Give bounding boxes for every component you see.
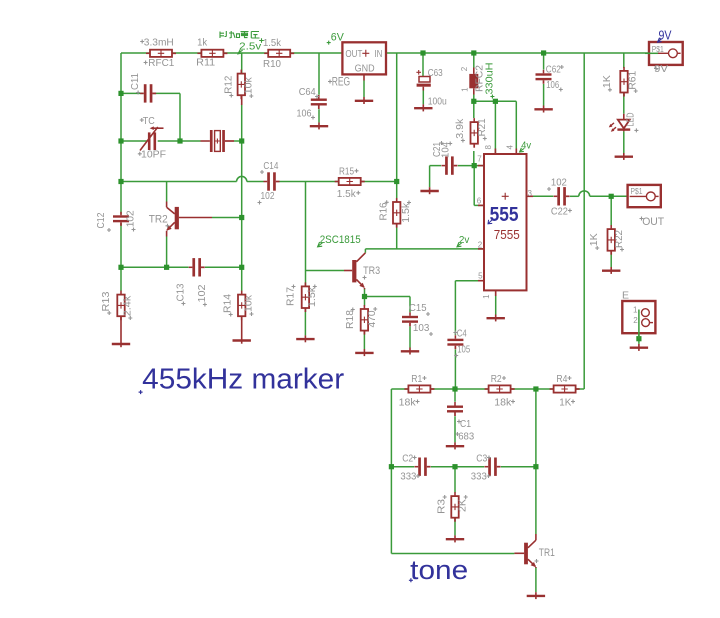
wire TR3 base bbox=[306, 270, 345, 272]
svg-text:102: 102 bbox=[125, 210, 137, 227]
capacitor C15 bbox=[402, 312, 418, 326]
green label annotation (kanji) bbox=[220, 31, 260, 38]
wire R61 branch bbox=[623, 53, 625, 68]
svg-text:C14: C14 bbox=[263, 160, 278, 172]
wire C62 branch bbox=[543, 53, 545, 70]
resistor R4 bbox=[550, 385, 580, 392]
connector P$1 9V battery bbox=[649, 42, 683, 65]
wire VCC to pins 8 and 4 bbox=[474, 100, 517, 102]
svg-text:455kHz marker: 455kHz marker bbox=[142, 363, 344, 395]
svg-text:R22: R22 bbox=[613, 230, 625, 248]
wire into 9V connector bbox=[649, 52, 658, 54]
svg-text:R14: R14 bbox=[222, 294, 234, 313]
wire bottom oscillator rail bbox=[121, 266, 189, 268]
svg-text:2SC1815: 2SC1815 bbox=[320, 234, 361, 246]
svg-text:7: 7 bbox=[477, 155, 482, 164]
svg-text:R61: R61 bbox=[627, 71, 639, 90]
svg-text:10PF: 10PF bbox=[141, 149, 166, 161]
wire C21 left to ground bbox=[430, 165, 441, 167]
svg-text:LED: LED bbox=[624, 112, 636, 126]
wire C1 branch bbox=[454, 389, 456, 402]
resistor R2 bbox=[485, 385, 515, 392]
svg-text:R17: R17 bbox=[285, 287, 297, 306]
svg-text:100u: 100u bbox=[428, 95, 447, 107]
svg-text:10k: 10k bbox=[242, 76, 254, 94]
capacitor C4 bbox=[447, 335, 463, 349]
svg-text:C11: C11 bbox=[129, 73, 141, 90]
ground below R17 bbox=[296, 335, 314, 342]
ground below R14 bbox=[233, 316, 251, 343]
resistor R10 bbox=[264, 50, 294, 57]
IC 555 body bbox=[484, 154, 527, 290]
svg-text:P$1: P$1 bbox=[652, 45, 664, 54]
wire R16 bottom to pin2 line bbox=[396, 224, 398, 249]
capacitor C2 bbox=[415, 458, 431, 476]
wire C63 branch bbox=[422, 53, 424, 76]
wire C14 to R15 node bbox=[280, 181, 339, 183]
ground below REG bbox=[355, 97, 373, 104]
svg-text:106: 106 bbox=[297, 108, 312, 120]
connector E (earphone) bbox=[622, 301, 655, 333]
wire hop over x=241.7 bbox=[237, 176, 247, 181]
ground below C21 bbox=[420, 187, 438, 194]
svg-text:3: 3 bbox=[528, 189, 533, 198]
svg-text:C63: C63 bbox=[428, 67, 443, 79]
wire R17 bottom bbox=[304, 308, 306, 335]
ground below LED bbox=[615, 153, 633, 160]
svg-text:R1: R1 bbox=[411, 373, 422, 385]
trimmer capacitor TC bbox=[140, 126, 164, 150]
svg-text:2: 2 bbox=[460, 66, 469, 71]
svg-text:6V: 6V bbox=[331, 32, 345, 44]
svg-text:C3: C3 bbox=[476, 453, 487, 465]
ground below C64 bbox=[310, 122, 328, 129]
ground below E connector bbox=[630, 344, 648, 351]
svg-text:R16: R16 bbox=[378, 202, 390, 220]
capacitor C11 bbox=[140, 84, 156, 102]
resistor R12 bbox=[238, 70, 245, 100]
resistor R16 bbox=[393, 198, 400, 228]
svg-text:1K: 1K bbox=[601, 75, 613, 88]
svg-text:RFC1: RFC1 bbox=[148, 57, 174, 69]
wire 555 pin 1 ground bbox=[495, 291, 497, 315]
svg-text:TC: TC bbox=[143, 115, 155, 127]
svg-text:102: 102 bbox=[261, 190, 275, 202]
wire C21 right to pin7 junction bbox=[458, 165, 484, 167]
ground below R13 bbox=[112, 316, 130, 347]
ground below 555 pin 1 bbox=[487, 315, 505, 322]
svg-text:1.5k: 1.5k bbox=[263, 37, 282, 49]
svg-text:R13: R13 bbox=[100, 291, 112, 311]
wire 555 pin 3 to C22 bbox=[533, 195, 554, 197]
wire y=181.5 rail to C14 bbox=[247, 181, 264, 183]
svg-text:105: 105 bbox=[457, 343, 470, 355]
resistor R17 bbox=[302, 282, 309, 312]
wire R12 branch bbox=[241, 53, 243, 73]
wire R61 to LED bbox=[623, 92, 625, 114]
wire tone left rail down bbox=[390, 389, 392, 554]
crystal X1 bbox=[201, 130, 235, 152]
resistor R15 bbox=[335, 178, 365, 185]
wire pin7 junction down to pin 6 bbox=[473, 166, 475, 206]
svg-text:R18: R18 bbox=[344, 310, 356, 329]
svg-text:102: 102 bbox=[551, 177, 567, 189]
svg-text:P$1: P$1 bbox=[631, 187, 643, 196]
wire top supply rail bbox=[121, 52, 150, 54]
wire C2/C3 rail bbox=[391, 466, 414, 468]
wire R21 branch bbox=[473, 101, 475, 118]
svg-text:OUT: OUT bbox=[642, 216, 664, 228]
ground below C63 bbox=[414, 104, 432, 111]
wire node down to TR3 base and R17 bbox=[305, 182, 307, 287]
wire TC / crystal node bbox=[121, 140, 147, 142]
wire tone top rail bbox=[391, 388, 407, 390]
wire tone bottom to TR1 base bbox=[391, 553, 514, 555]
resistor R18 bbox=[361, 305, 368, 335]
svg-text:C13: C13 bbox=[174, 283, 186, 301]
svg-text:6: 6 bbox=[477, 197, 482, 206]
svg-text:555: 555 bbox=[490, 204, 519, 226]
svg-text:1k: 1k bbox=[197, 37, 208, 49]
svg-text:R2: R2 bbox=[491, 373, 502, 385]
svg-text:18k: 18k bbox=[399, 396, 417, 408]
capacitor C63 (electrolytic) bbox=[417, 77, 431, 91]
svg-text:683: 683 bbox=[458, 431, 474, 443]
svg-text:1.5k: 1.5k bbox=[337, 188, 357, 200]
capacitor C13 bbox=[189, 258, 205, 276]
svg-text:10k: 10k bbox=[243, 294, 255, 312]
wire left oscillator rail bbox=[120, 53, 122, 214]
svg-text:TR2: TR2 bbox=[149, 214, 168, 226]
resistor R22 bbox=[608, 225, 615, 255]
capacitor C12 bbox=[113, 212, 129, 226]
ground below C1 bbox=[446, 442, 464, 449]
resistor R21 bbox=[471, 118, 478, 148]
svg-text:18k: 18k bbox=[494, 396, 512, 408]
svg-text:4: 4 bbox=[506, 145, 515, 150]
wire hop over right rail bbox=[579, 191, 590, 196]
svg-text:3.9k: 3.9k bbox=[454, 118, 466, 139]
capacitor C21 bbox=[441, 156, 457, 174]
svg-text:330uH: 330uH bbox=[483, 63, 495, 95]
svg-text:R21: R21 bbox=[476, 118, 488, 136]
wire x=241.7 vertical (crystal to base to bottom rail) bbox=[241, 141, 243, 267]
wire R14 branch bbox=[241, 267, 243, 291]
svg-text:IN: IN bbox=[374, 48, 382, 60]
wire R16 top stub bbox=[396, 182, 398, 203]
wire LED to ground bbox=[623, 131, 625, 153]
svg-text:2.4k: 2.4k bbox=[121, 295, 133, 316]
resistor R3 bbox=[451, 492, 458, 522]
svg-text:5: 5 bbox=[478, 272, 483, 281]
capacitor C3 bbox=[485, 458, 501, 476]
svg-text:C1: C1 bbox=[460, 418, 471, 430]
svg-text:1: 1 bbox=[633, 305, 638, 314]
ground below C15 bbox=[401, 348, 419, 355]
resistor R14 bbox=[238, 291, 245, 321]
wire to OUT connector bbox=[590, 195, 628, 197]
svg-text:1K: 1K bbox=[588, 233, 600, 246]
svg-text:106: 106 bbox=[546, 79, 559, 91]
svg-text:C12: C12 bbox=[95, 212, 107, 228]
wire REG ground pin bbox=[363, 81, 365, 98]
svg-text:R3: R3 bbox=[436, 499, 448, 514]
svg-text:1.5k: 1.5k bbox=[400, 202, 412, 223]
svg-text:OUT: OUT bbox=[345, 48, 362, 60]
wire TR2 collector riser bbox=[166, 182, 168, 202]
svg-text:C2: C2 bbox=[402, 453, 413, 465]
wire C64 branch bbox=[318, 53, 320, 95]
svg-text:E: E bbox=[622, 290, 629, 302]
wire R22 branch bbox=[610, 196, 612, 226]
svg-text:9V: 9V bbox=[659, 28, 672, 43]
wire C22 to hop bbox=[570, 195, 579, 197]
svg-text:102: 102 bbox=[196, 284, 208, 302]
inductor RFC1 bbox=[146, 50, 176, 57]
wire y=181.5 rail left of hop bbox=[121, 181, 237, 183]
resistor R13 bbox=[117, 291, 124, 321]
transistor TR2 (mirrored NPN) bbox=[166, 202, 212, 237]
connector P$1 OUT bbox=[628, 185, 661, 207]
transistor TR3 (NPN) bbox=[344, 253, 365, 289]
wire C11 feedback branch bbox=[121, 92, 144, 94]
ground below R22 bbox=[602, 267, 620, 274]
svg-text:C4: C4 bbox=[457, 328, 467, 340]
svg-text:2: 2 bbox=[633, 316, 638, 325]
wire 555 pin 2 line bbox=[365, 248, 484, 250]
wire TR1 emitter to ground bbox=[535, 567, 537, 592]
capacitor C64 bbox=[311, 95, 327, 109]
voltage regulator REG bbox=[342, 42, 386, 74]
junction dots bbox=[118, 91, 123, 96]
svg-text:REG: REG bbox=[332, 76, 351, 88]
wire C15 bottom bbox=[409, 326, 411, 347]
svg-text:1.5k: 1.5k bbox=[306, 286, 318, 307]
svg-text:C62: C62 bbox=[546, 63, 561, 75]
wire inside E connector bbox=[638, 310, 640, 339]
svg-text:TR1: TR1 bbox=[539, 547, 555, 559]
svg-text:2K: 2K bbox=[457, 499, 469, 512]
ground below C62 bbox=[534, 106, 552, 113]
inductor RFC2 bbox=[469, 68, 478, 95]
svg-text:TR3: TR3 bbox=[363, 265, 380, 277]
capacitor C22 bbox=[554, 187, 570, 205]
svg-text:470: 470 bbox=[366, 310, 378, 327]
svg-text:R11: R11 bbox=[196, 56, 215, 68]
wire R15 to R16 junction bbox=[361, 181, 397, 183]
wire 555 pin 5 to C4 bbox=[455, 280, 484, 282]
svg-text:333: 333 bbox=[471, 471, 487, 483]
svg-text:333: 333 bbox=[400, 471, 416, 483]
wire TR3 emitter node bbox=[364, 289, 366, 306]
svg-text:C64: C64 bbox=[299, 86, 316, 98]
resistor R11 bbox=[197, 50, 227, 57]
svg-text:1K: 1K bbox=[559, 396, 571, 408]
capacitor C14 bbox=[264, 172, 280, 190]
wire right 9V rail down to tone section bbox=[583, 53, 585, 389]
svg-text:R10: R10 bbox=[263, 58, 281, 70]
svg-text:R12: R12 bbox=[222, 76, 234, 94]
wire R3 branch bbox=[454, 467, 456, 493]
wire top rail down to R15/R16 junction bbox=[396, 53, 398, 182]
ground below R3 bbox=[446, 535, 464, 542]
ground below TR1 bbox=[527, 592, 545, 599]
wire RFC2 branch bbox=[473, 53, 475, 68]
capacitor C1 bbox=[447, 402, 463, 416]
transistor TR1 (NPN) bbox=[514, 534, 536, 568]
svg-text:C22: C22 bbox=[551, 206, 568, 218]
svg-text:R15: R15 bbox=[339, 166, 354, 178]
wire E connector pins to ground bbox=[638, 313, 640, 344]
svg-text:C15: C15 bbox=[409, 302, 427, 314]
wire TR2 base to x=241.7 bbox=[212, 217, 242, 219]
wire R18 bottom bbox=[363, 331, 365, 349]
svg-text:1: 1 bbox=[482, 294, 491, 299]
svg-text:2: 2 bbox=[478, 240, 483, 249]
svg-text:1: 1 bbox=[460, 87, 469, 92]
svg-text:3.3mH: 3.3mH bbox=[144, 37, 174, 49]
wire into 9V connector (overlay) bbox=[645, 52, 658, 54]
svg-text:GND: GND bbox=[355, 63, 375, 75]
svg-text:103: 103 bbox=[413, 322, 430, 334]
svg-text:8: 8 bbox=[484, 145, 493, 150]
svg-text:R4: R4 bbox=[556, 373, 567, 385]
wire R2/R4 junction down to TR1 collector bbox=[535, 389, 537, 534]
LED bbox=[609, 114, 630, 132]
wire TR2 emitter drop bbox=[166, 237, 168, 268]
resistor R61 bbox=[620, 67, 627, 97]
capacitor C62 bbox=[536, 70, 552, 84]
svg-text:tone: tone bbox=[410, 555, 468, 585]
ground below R18 bbox=[355, 349, 373, 356]
resistor R1 bbox=[404, 385, 434, 392]
wire R13 branch bbox=[120, 267, 122, 291]
svg-text:7555: 7555 bbox=[494, 227, 520, 242]
